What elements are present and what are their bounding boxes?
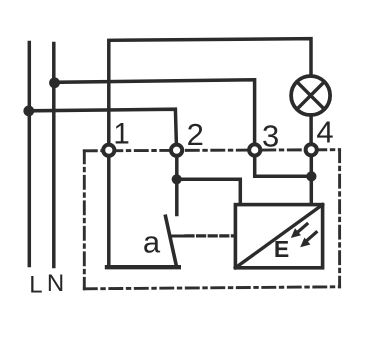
svg-text:1: 1 [113, 118, 129, 151]
svg-text:4: 4 [316, 115, 333, 150]
switch a actuator tick [172, 235, 183, 238]
node junction on N [49, 77, 60, 88]
wire L to terminal 2 [29, 109, 176, 144]
wire lamp to terminal 4 [309, 115, 313, 144]
svg-text:L: L [29, 271, 42, 298]
wire terminal 1 up and over to lamp [109, 39, 311, 144]
wire terminal 3 to junction on terminal 4 wire [255, 157, 312, 177]
svg-text:a: a [143, 224, 161, 259]
node junction below terminal 4 [306, 171, 316, 181]
arrow light 1 [298, 224, 308, 232]
wire N to terminal 3 [54, 80, 255, 145]
enclosure dash-dot boundary [84, 150, 339, 289]
wire switch bottom horizontal [107, 265, 179, 269]
svg-text:2: 2 [187, 117, 204, 152]
node junction on L [23, 106, 34, 117]
wire junction to E box top left [177, 179, 241, 203]
terminal 3 [249, 144, 260, 155]
wire terminal 2 down to switch fixed contact [175, 157, 179, 215]
switch a blade [166, 216, 177, 266]
lamp E1 [291, 76, 330, 115]
svg-text:3: 3 [262, 119, 279, 154]
svg-text:E: E [274, 236, 289, 262]
wire L supply line [28, 43, 32, 266]
wire N supply line [52, 44, 56, 267]
wire terminal 4 down to E box [310, 156, 314, 203]
terminal 4 [306, 144, 317, 155]
node junction below terminal 2 [172, 174, 182, 184]
wire terminal 1 down to switch bottom [107, 157, 111, 267]
arrow light 2 [307, 232, 316, 240]
terminal 1 [103, 145, 114, 156]
sensor box E [235, 205, 322, 268]
terminal 2 [171, 145, 182, 156]
svg-text:N: N [47, 270, 64, 297]
dashed control link to E box [186, 234, 235, 237]
